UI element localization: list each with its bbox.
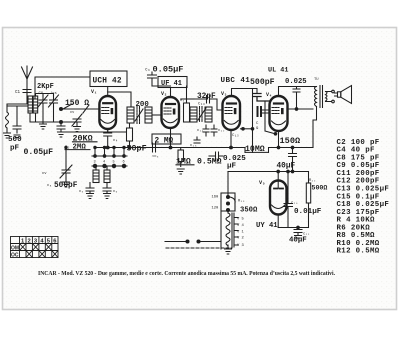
wire trimmer C5 down (53, 107, 55, 122)
junction dot screen (295, 108, 298, 111)
label 500 pF (8, 136, 22, 153)
main bus line B+ (95, 148, 313, 153)
junction dot rail2 (291, 170, 294, 173)
svg-text:50pF: 50pF (127, 144, 147, 154)
tube V3 UBC41 (223, 96, 241, 138)
table X marks OC row (26, 251, 58, 258)
coil L2 (6, 112, 9, 128)
svg-text:2MΩ: 2MΩ (73, 144, 87, 152)
bus line A (60, 131, 126, 133)
svg-text:TU: TU (314, 78, 319, 82)
resistor R7 (178, 148, 184, 167)
wire UCH box to tube (107, 87, 109, 97)
svg-text:UCH 42: UCH 42 (93, 78, 122, 86)
transformer bottom ground (225, 245, 232, 254)
svg-text:0.5MΩ: 0.5MΩ (197, 158, 222, 167)
junction dot rail (277, 170, 280, 173)
wire switch to V1 grid (63, 108, 99, 110)
band switch table (11, 237, 59, 258)
trimmer ground C7 (63, 111, 82, 132)
svg-text:C2 100 pF: C2 100 pF (337, 139, 380, 147)
svg-text:C11 200pF: C11 200pF (337, 170, 380, 178)
tube box UF 41 (158, 77, 187, 89)
label 32pF (197, 93, 216, 107)
svg-text:V₂: V₂ (161, 91, 167, 97)
svg-text:c₁₁: c₁₁ (197, 129, 204, 133)
svg-text:c₁₃: c₁₃ (190, 144, 197, 148)
capacitor C2a 500pF (13, 106, 21, 138)
wire V2 plate to 32pF (181, 98, 194, 100)
switch contact S2 (60, 121, 63, 124)
svg-text:UBC 41: UBC 41 (221, 77, 251, 85)
wire coil bottom to switch (30, 113, 59, 122)
svg-text:V₁: V₁ (91, 89, 97, 95)
svg-text:R₁₃: R₁₃ (238, 200, 245, 204)
svg-text:500pF: 500pF (250, 78, 275, 87)
capacitor C17 (209, 152, 223, 161)
svg-text:R₁₂: R₁₂ (309, 179, 316, 183)
svg-text:0.05μF: 0.05μF (24, 148, 54, 157)
wire V2 cathode (170, 128, 172, 148)
switch bank row 2 (92, 164, 127, 167)
svg-text:C12 200pF: C12 200pF (337, 178, 380, 186)
capacitor C16 40uF (289, 146, 297, 171)
wire rail down left (227, 172, 229, 198)
svg-text:C13 0.025μF: C13 0.025μF (337, 186, 390, 194)
capacitor c6 top 0.05uF (145, 65, 183, 87)
svg-text:C₁₀: C₁₀ (198, 103, 205, 107)
svg-text:0.01μF: 0.01μF (294, 208, 322, 216)
svg-text:V 5: V 5 (237, 218, 245, 222)
capacitor C4 (104, 131, 118, 148)
label 0.025 uF (223, 155, 246, 171)
ground trimmer C8 (63, 182, 70, 187)
resistor R6b (180, 86, 190, 122)
svg-text:2: 2 (28, 239, 31, 245)
svg-text:350Ω: 350Ω (240, 207, 258, 215)
speaker (335, 86, 352, 104)
output transformer TU (314, 78, 334, 108)
svg-text:c₂₀: c₂₀ (291, 202, 298, 206)
capacitor C12 (211, 125, 225, 136)
tube V2 UF41 (162, 97, 180, 128)
junction dot V4 (277, 146, 280, 149)
label 20Kohm (73, 134, 98, 144)
oscillator coil L3 (93, 166, 99, 183)
wire trimmer (65, 146, 67, 182)
selector box (221, 193, 235, 211)
mains wire (165, 211, 221, 249)
svg-text:c₈: c₈ (47, 184, 52, 188)
label 10Mohm (245, 145, 269, 154)
svg-text:150 Ω: 150 Ω (65, 99, 89, 108)
svg-text:c₅: c₅ (113, 190, 118, 194)
svg-text:150Ω: 150Ω (280, 136, 301, 146)
junction dot V3 cathode (230, 146, 233, 149)
junction dot V1 cathode (106, 146, 109, 149)
antenna (22, 66, 33, 95)
svg-text:V 4: V 4 (237, 224, 245, 228)
svg-text:C23 175pF: C23 175pF (337, 209, 380, 217)
svg-text:≈c₅: ≈c₅ (152, 155, 159, 159)
capacitor C1 (15, 90, 31, 99)
svg-text:INCAR - Mod. VZ 520 - Due gamm: INCAR - Mod. VZ 520 - Due gamme, medie e… (38, 270, 335, 277)
wire antenna to coil (7, 96, 30, 112)
power transformer (226, 213, 238, 247)
table digits (11, 239, 57, 259)
svg-text:c₁₂: c₁₂ (218, 129, 225, 133)
label R3 2Mohm (65, 144, 90, 152)
trimmer C8 (42, 165, 72, 178)
AVC wire to UCH box (35, 77, 90, 98)
svg-text:V 1: V 1 (237, 231, 245, 235)
svg-text:C18 0.025μF: C18 0.025μF (337, 201, 390, 209)
label C8 500pF (47, 182, 78, 190)
svg-text:C1: C1 (15, 91, 21, 95)
wire V5 top pin (277, 172, 279, 181)
tube box UCH 42 (90, 71, 127, 87)
capacitor C13 (190, 137, 200, 148)
IF transformer T1 (127, 107, 152, 124)
capacitor C20 (284, 202, 298, 228)
switch arm mark (83, 105, 89, 113)
transformer tap labels (237, 218, 245, 249)
svg-text:V 2: V 2 (237, 237, 245, 241)
svg-text:μF: μF (227, 163, 237, 171)
junction dot R6a (128, 146, 131, 149)
svg-text:R₆: R₆ (180, 99, 185, 103)
svg-text:V₄: V₄ (266, 92, 272, 98)
ground under trimmer CV (40, 107, 47, 129)
component list (337, 139, 390, 256)
svg-text:V 3: V 3 (237, 244, 245, 248)
svg-text:40μF: 40μF (289, 237, 307, 245)
contact numbers (94, 161, 125, 165)
table X marks OM row (20, 244, 52, 251)
capacitor 500pF (253, 94, 269, 102)
trimmer capacitor C5 (49, 91, 59, 107)
screen feed wire x252 (252, 89, 254, 153)
capacitor C9 (256, 107, 261, 131)
dashed chassis line (166, 247, 232, 249)
svg-text:V₃: V₃ (221, 91, 227, 97)
svg-text:UL 41: UL 41 (268, 67, 288, 75)
svg-text:200: 200 (136, 101, 150, 109)
svg-text:500pF: 500pF (54, 182, 78, 190)
svg-text:UY 41: UY 41 (256, 222, 278, 230)
capacitor C3 (79, 183, 94, 199)
capacitor with ground mid left (57, 124, 65, 137)
capacitor 0.025 (293, 87, 300, 110)
switch bank row 1 (92, 155, 127, 158)
capacitor C11 (197, 125, 209, 136)
svg-text:c₃: c₃ (79, 190, 84, 194)
screen bus line right (288, 108, 313, 110)
svg-text:500Ω: 500Ω (312, 185, 328, 192)
tube V5 UY41 (270, 181, 287, 215)
svg-text:V₅: V₅ (259, 180, 265, 186)
ground R7 (177, 169, 184, 174)
supply rail (228, 171, 309, 173)
svg-text:OC: OC (11, 253, 19, 259)
capacitor C6 on bus (152, 143, 159, 159)
svg-text:120: 120 (212, 207, 220, 211)
resistor R8 grid leak (262, 101, 277, 135)
trimmer capacitor CV (38, 92, 48, 108)
wire V4 plate top (279, 87, 317, 97)
svg-text:R12 0.5MΩ: R12 0.5MΩ (337, 248, 380, 256)
wire C20 branch (287, 172, 289, 204)
bottom rail (278, 227, 308, 229)
oscillator coil L4 (104, 166, 110, 183)
wire V1 cathode down (107, 129, 109, 131)
svg-text:500: 500 (8, 136, 22, 144)
ground under L2 (4, 128, 11, 138)
resistor R6a (127, 123, 133, 148)
wire transformer bottom (313, 107, 317, 148)
capacitor 32pF (194, 96, 222, 111)
svg-text:R 4 10KΩ: R 4 10KΩ (337, 217, 375, 225)
svg-text:0.025: 0.025 (285, 78, 307, 86)
svg-text:UF 41: UF 41 (161, 80, 182, 88)
wire T1 to V2 grid (152, 114, 161, 116)
svg-text:R6 20KΩ: R6 20KΩ (337, 224, 371, 232)
wires rows to bus (95, 148, 124, 157)
svg-text:c₄: c₄ (113, 139, 118, 143)
label 1Mohm (176, 158, 194, 167)
svg-text:cv: cv (42, 172, 47, 176)
wire V3 cathode (230, 130, 232, 148)
svg-text:0.05μF: 0.05μF (153, 65, 184, 75)
capacitor C21 ground (294, 226, 310, 238)
junction dot C20 top (287, 170, 290, 173)
tube V1 UCH42 (99, 96, 116, 129)
svg-text:OM: OM (11, 246, 19, 252)
capacitor C5b (103, 183, 118, 199)
svg-text:C4 40 pF: C4 40 pF (337, 147, 375, 155)
wire coil top bus (7, 105, 27, 107)
wire V4 cathode (278, 131, 280, 148)
IF transformer T2 (190, 107, 212, 123)
switch contact S1 (60, 104, 73, 111)
svg-text:C9 0.05μF: C9 0.05μF (337, 162, 380, 170)
junction dots on bus (94, 146, 125, 148)
voltage selector (212, 196, 236, 214)
resistor R12 500ohm (306, 172, 327, 228)
tube V4 UL41 (270, 96, 288, 131)
wire V3 side pin (241, 128, 254, 131)
wire c6 to V2 top (152, 86, 171, 97)
svg-text:pF: pF (10, 145, 20, 153)
coil L1 input transformer (28, 96, 38, 113)
wire V1 plate top (108, 92, 131, 107)
junction dot V2 cathode (169, 146, 172, 149)
svg-text:c₆: c₆ (145, 68, 150, 73)
svg-text:C₁₅: C₁₅ (232, 134, 239, 138)
wire V3 plate top (232, 89, 258, 97)
svg-text:40μF: 40μF (277, 163, 296, 171)
svg-text:2KpF: 2KpF (37, 83, 54, 91)
resistor box 2 Mohm (152, 134, 181, 145)
trimmer top link wire (36, 94, 54, 97)
wire V5 bottom (277, 215, 279, 228)
svg-text:R10 0.2MΩ: R10 0.2MΩ (337, 240, 380, 248)
svg-text:160: 160 (212, 196, 220, 200)
